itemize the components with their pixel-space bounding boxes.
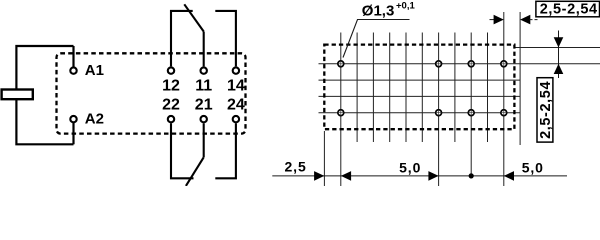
relay outline (dashed case) (57, 53, 246, 133)
bottom dimension line (272, 175, 567, 177)
dashed leader to top-right label (530, 19, 540, 21)
grid line col 7 (454, 33, 456, 143)
switch blade top (common 11) (184, 4, 203, 31)
wire terminal 14 (vertical + NO top bar) (215, 11, 236, 67)
PCB outline (dashed footprint) (324, 45, 514, 130)
terminal A2 (70, 116, 76, 122)
grid line col 3 (389, 33, 391, 143)
svg-text:A2: A2 (85, 111, 104, 128)
coil K1 (2, 90, 33, 100)
grid row line C (319, 79, 521, 81)
svg-text:12: 12 (162, 77, 180, 94)
wire terminal 22 (vertical + NC bottom bar) (171, 123, 194, 178)
hole H8 (bottom row col 10) (501, 110, 507, 116)
svg-text:2,5: 2,5 (285, 159, 307, 175)
dimension dot at col 8 (469, 173, 474, 178)
terminal 14 pin (233, 67, 239, 73)
grid line col 4 (405, 33, 407, 143)
hole H2 (top row col 6) (436, 61, 442, 67)
grid row line A (upper extension row, right side) (514, 47, 600, 49)
svg-text:22: 22 (162, 97, 180, 114)
top dimension line left segment + arrow (490, 19, 496, 21)
arrowhead left-pointing (top dim) (520, 15, 530, 25)
svg-text:+0,1: +0,1 (396, 1, 415, 12)
wire terminal 11 (vertical common, top) (203, 32, 205, 67)
terminal 22 pin (168, 116, 174, 122)
wire coil loop (top feed, left vertical, bottom feed) (16, 46, 73, 144)
grid line col 0 (hole column, extension to bottom dim) (340, 33, 342, 187)
terminal 11 pin (201, 67, 207, 73)
wire A2 riser (72, 123, 74, 145)
grid line col 8 (hole column, extension to dim dot) (470, 33, 472, 176)
terminal 21 pin (201, 116, 207, 122)
grid line col 10 (hole column, extension top+bottom dims) (503, 12, 505, 186)
leader line for hole diameter label (343, 20, 410, 58)
arrowhead left-pointing at col 0 (2,5) (341, 171, 351, 181)
terminal A1 (70, 67, 76, 73)
grid line col 5 (421, 33, 423, 143)
grid line col 9 (487, 33, 489, 143)
arrowhead left-pointing at col 10 (5,0) (504, 171, 514, 181)
grid line col 2 (372, 33, 374, 143)
svg-text:2,5-2,54: 2,5-2,54 (540, 2, 598, 18)
svg-text:11: 11 (195, 77, 212, 94)
extension line col 11 (top dim right side) (519, 12, 521, 145)
hole H7 (bottom row col 8) (468, 110, 474, 116)
wire terminal 12 (vertical + NC top bar) (171, 11, 193, 67)
right vertical dimension line (558, 31, 560, 79)
svg-text:Ø1,3: Ø1,3 (362, 2, 395, 19)
svg-text:24: 24 (227, 97, 245, 114)
svg-text:2,5-2,54: 2,5-2,54 (538, 81, 554, 139)
right rotated label frame 2,5-2,54 (537, 78, 553, 142)
wire terminal 21 (vertical common, bottom) (203, 123, 205, 157)
wire A1 drop (72, 46, 74, 67)
grid line col 6 (hole column, extension to bottom dim) (438, 33, 440, 187)
arrowhead right-pointing at box edge (2,5) (314, 171, 324, 181)
extension line left box edge (bottom dim) (323, 131, 325, 186)
hole H5 (bottom row col 0) (338, 110, 344, 116)
hole H1 (top row col 0) (338, 61, 344, 67)
top-right label frame 2,5-2,54 (536, 1, 600, 16)
arrowhead right-pointing (top dim) (494, 15, 504, 25)
hole H6 (bottom row col 6) (436, 110, 442, 116)
grid row line B (top hole row, extends right for dim) (319, 63, 600, 65)
terminal 24 pin (233, 116, 239, 122)
svg-text:21: 21 (195, 97, 213, 114)
hole H3 (top row col 8) (468, 61, 474, 67)
svg-text:5,0: 5,0 (522, 159, 544, 175)
arrowhead down-pointing (right dim) (554, 37, 564, 47)
grid row line D (319, 95, 521, 97)
grid row line E (bottom hole row) (319, 112, 521, 114)
terminal 12 pin (168, 67, 174, 73)
hole H4 (top row col 10) (501, 61, 507, 67)
svg-text:14: 14 (227, 77, 245, 94)
grid line col 1 (356, 33, 358, 143)
svg-text:A1: A1 (85, 62, 104, 79)
svg-text:5,0: 5,0 (399, 160, 421, 176)
wire terminal 24 (vertical + NO bottom bar) (215, 123, 236, 178)
switch blade bottom (common 21) (186, 157, 204, 186)
arrowhead up-pointing (right dim) (554, 64, 564, 74)
arrowhead right-pointing at col 6 (5,0) (428, 171, 438, 181)
